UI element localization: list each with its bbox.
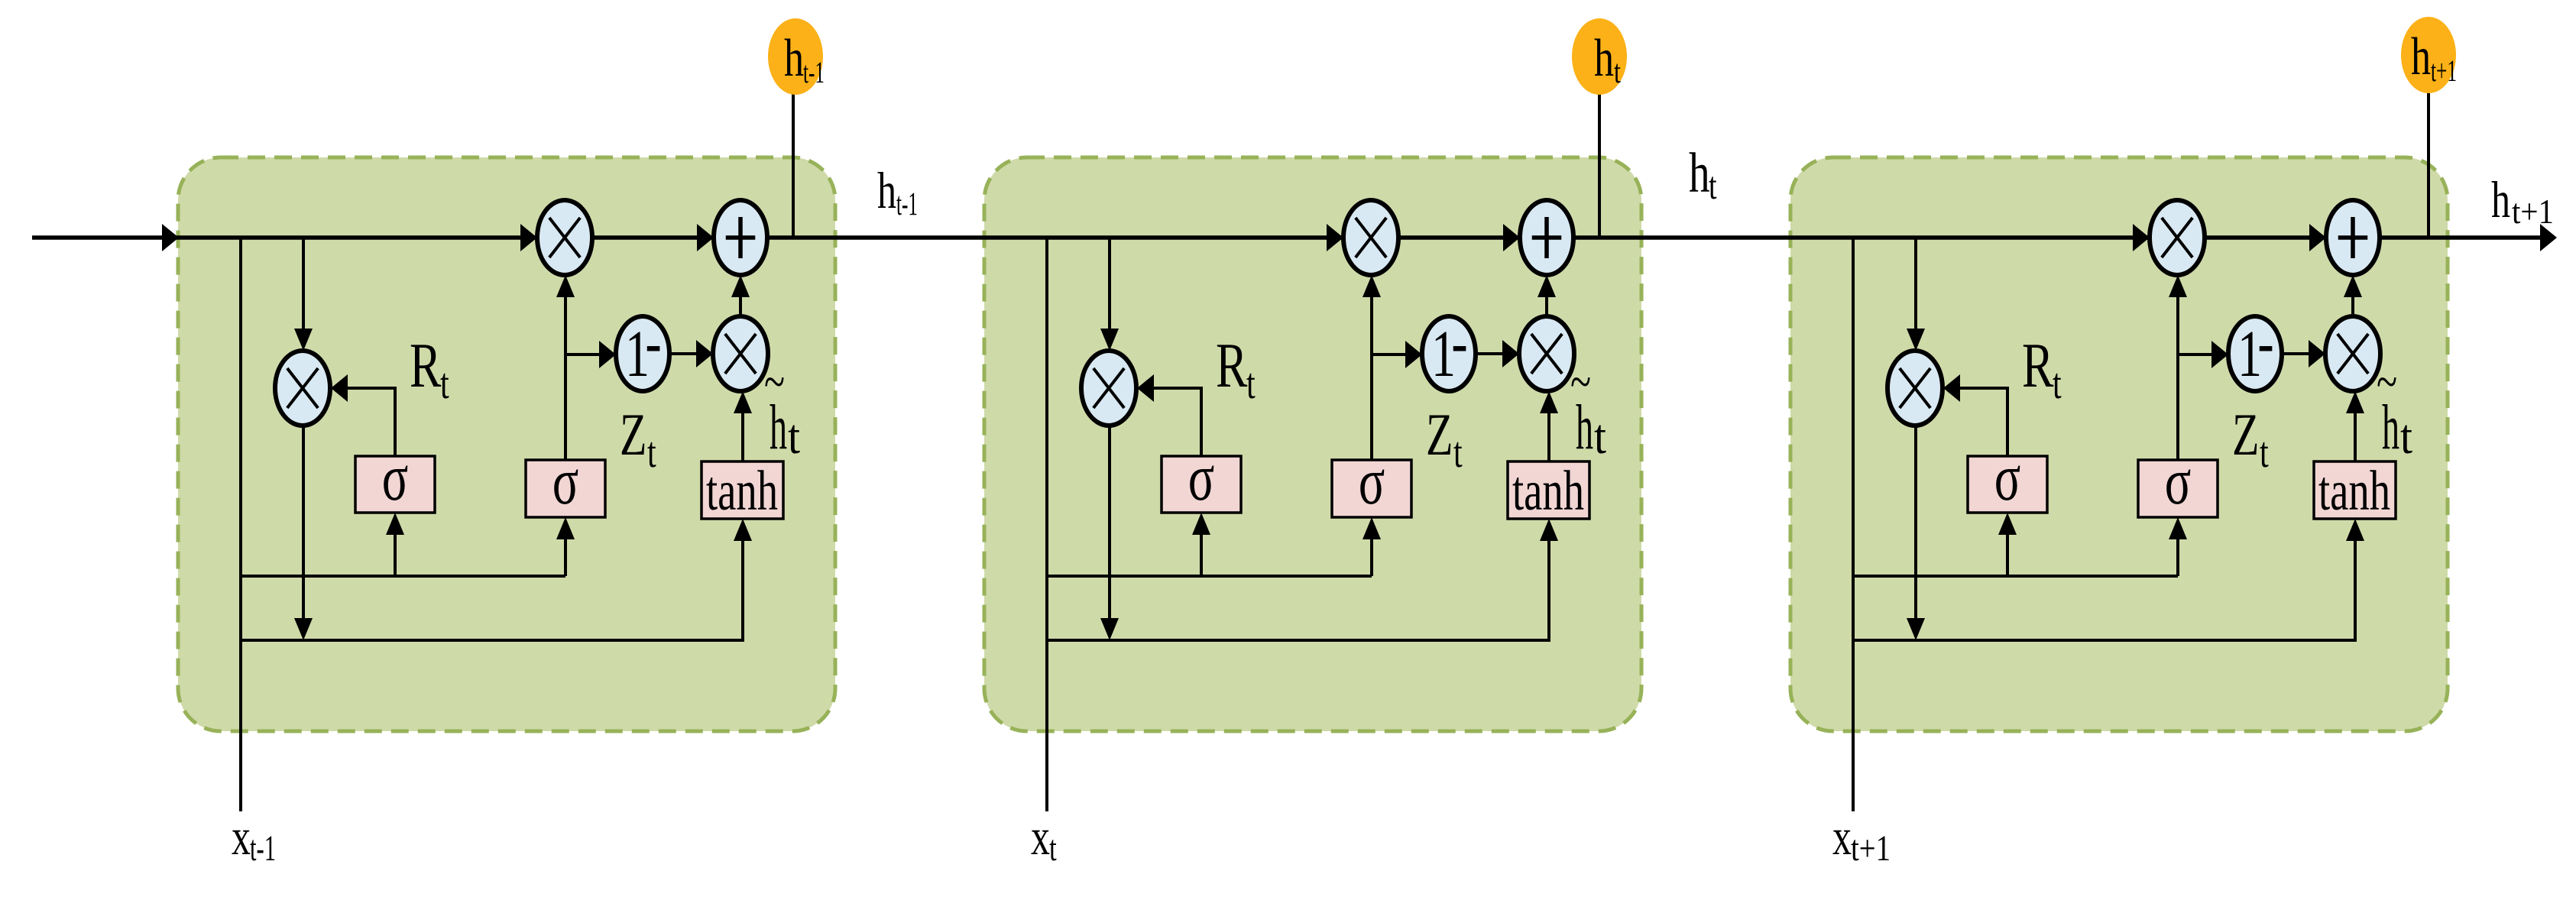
wire: update gate Z_t up to multiply node of cell 2: [1370, 296, 1373, 460]
svg-text:h: h: [1576, 391, 1593, 462]
svg-text:t: t: [2260, 429, 2269, 477]
svg-text:σ: σ: [382, 442, 408, 514]
svg-text:t: t: [1709, 164, 1717, 208]
update multiply node on h bus of cell 1: [537, 200, 592, 275]
update multiply node on h bus of cell 3: [2150, 200, 2205, 275]
svg-text:tanh: tanh: [706, 460, 778, 523]
candidate multiply node (x-in-ellipse) of cell 3: [2325, 316, 2380, 391]
svg-text:h: h: [2411, 28, 2431, 86]
sigma box 1 (reset gate) of cell 3: [1968, 456, 2047, 513]
wire: one-minus output to candidate multiply of cell 3: [2282, 352, 2309, 355]
wire: R_t gate signal from sigma to reset multiply of cell 3: [1959, 388, 2007, 456]
wire: lower feed line into tanh of cell 3: [1853, 539, 2355, 640]
sigma box 1 (reset gate) of cell 2: [1162, 456, 1241, 513]
arrowhead: into update multiply node of cell 2: [1327, 224, 1343, 251]
svg-text:σ: σ: [1188, 442, 1214, 514]
svg-text:h: h: [877, 162, 896, 219]
sigma box 2 (update gate) of cell 1: [526, 460, 605, 517]
wire: tanh output to candidate multiply of cell 1: [741, 411, 744, 461]
svg-text:h: h: [2382, 391, 2399, 462]
wire: input x line of cell 1 (vertical): [239, 238, 242, 811]
wire: input x line of cell 2 (vertical): [1045, 238, 1048, 811]
wire: feed into sigma box 2 of cell 1: [564, 537, 567, 576]
wire: lower feed line into tanh of cell 1: [241, 539, 743, 640]
arrowhead: into add node of cell 1: [697, 224, 714, 251]
svg-text:t: t: [1049, 828, 1057, 868]
wire: x/h feed line to gates (upper horizontal) of cell 1: [241, 575, 565, 578]
wire: Z_t branch to one-minus node of cell 2: [1372, 353, 1405, 356]
svg-text:t: t: [440, 360, 449, 408]
wire: Z_t branch to one-minus node of cell 3: [2178, 353, 2211, 356]
svg-text:t: t: [1453, 429, 1463, 477]
wire: x/h feed line to gates (upper horizontal) of cell 3: [1853, 575, 2178, 578]
svg-text:t: t: [2400, 410, 2412, 465]
arrowhead: into add node of cell 2: [1503, 224, 1520, 251]
candidate multiply node (x-in-ellipse) of cell 2: [1519, 316, 1574, 391]
tanh box of cell 1: [702, 461, 783, 519]
svg-text:tanh: tanh: [2318, 460, 2390, 523]
arrowhead: h(t-2) input entering cell 1: [162, 224, 179, 251]
svg-text:t-1: t-1: [803, 55, 825, 89]
svg-text:Z: Z: [1426, 402, 1453, 468]
arrowhead: final output h(t+1) at far right: [2540, 224, 2557, 251]
svg-text:t: t: [788, 410, 800, 465]
svg-text:t+1: t+1: [1851, 828, 1891, 868]
svg-text:h: h: [2491, 171, 2510, 228]
wire: reset multiply output down to tanh feed line of cell 1: [302, 426, 305, 620]
svg-text:x: x: [1832, 808, 1852, 866]
svg-text:σ: σ: [1994, 442, 2021, 514]
wire: Z_t branch to one-minus node of cell 1: [565, 353, 599, 356]
wire: reset multiply output down to tanh feed line of cell 3: [1914, 426, 1917, 620]
wire: lower feed line into tanh of cell 2: [1047, 539, 1549, 640]
svg-text:t: t: [1614, 53, 1621, 90]
wire: tanh output to candidate multiply of cell 3: [2354, 411, 2357, 461]
add node (+) on h bus of cell 3: [2326, 200, 2380, 275]
svg-text:-: -: [645, 306, 661, 379]
reset-gate multiply node (x-in-ellipse) of cell 3: [1887, 351, 1943, 426]
wire: feed into sigma box 2 of cell 2: [1370, 537, 1373, 576]
one-minus node (1-) of cell 1: [616, 316, 669, 391]
wire: R_t gate signal from sigma to reset multiply of cell 2: [1153, 388, 1201, 456]
svg-text:h: h: [784, 29, 804, 88]
reset-gate multiply node (x-in-ellipse) of cell 2: [1081, 351, 1136, 426]
wire: feed into sigma box 1 of cell 3: [2006, 533, 2009, 575]
svg-text:t-1: t-1: [250, 828, 276, 868]
one-minus node (1-) of cell 3: [2228, 316, 2282, 391]
wire: feed into sigma box 1 of cell 1: [394, 533, 397, 575]
wire: x/h feed line to gates (upper horizontal) of cell 2: [1047, 575, 1372, 578]
wire: hidden state output up to h bubble of cell 3: [2427, 93, 2430, 238]
wire: h branch down to reset multiply of cell 2: [1108, 238, 1111, 330]
svg-text:Z: Z: [2232, 402, 2259, 468]
svg-text:t: t: [647, 429, 656, 477]
arrowhead: into update multiply node of cell 3: [2133, 224, 2150, 251]
svg-text:t: t: [1594, 410, 1606, 465]
svg-text:R: R: [410, 329, 442, 400]
svg-text:h: h: [1594, 29, 1614, 88]
wire: R_t gate signal from sigma to reset multiply of cell 1: [347, 388, 395, 456]
wire: feed into sigma box 2 of cell 3: [2176, 537, 2179, 576]
wire: hidden state output up to h bubble of cell 1: [792, 93, 795, 238]
svg-text:t+1: t+1: [2512, 192, 2554, 231]
update multiply node on h bus of cell 2: [1343, 200, 1398, 275]
wire: candidate multiply up to add node of cell 3: [2351, 296, 2354, 316]
GRU cell 1 boundary (dashed green rounded box): [178, 157, 835, 731]
svg-text:R: R: [2022, 329, 2054, 400]
svg-text:x: x: [232, 808, 251, 866]
wire: tanh output to candidate multiply of cell 2: [1547, 411, 1550, 461]
wire: candidate multiply up to add node of cell 2: [1545, 296, 1548, 316]
svg-text:-: -: [1451, 306, 1467, 379]
sigma box 1 (reset gate) of cell 1: [355, 456, 435, 513]
sigma box 2 (update gate) of cell 3: [2138, 460, 2218, 517]
reset-gate multiply node (x-in-ellipse) of cell 1: [275, 351, 330, 426]
svg-text:tanh: tanh: [1512, 460, 1584, 523]
wire: one-minus output to candidate multiply of cell 1: [669, 352, 696, 355]
output bubble h (orange ellipse) of cell 1: [768, 18, 823, 95]
svg-text:R: R: [1216, 329, 1248, 400]
svg-text:t+1: t+1: [2431, 53, 2457, 88]
tanh box of cell 3: [2314, 461, 2396, 519]
wire: h branch down to reset multiply of cell 1: [302, 238, 305, 330]
svg-text:t-1: t-1: [896, 186, 918, 222]
wire: feed into sigma box 1 of cell 2: [1200, 533, 1203, 575]
add node (+) on h bus of cell 1: [714, 200, 767, 275]
arrowhead: into add node of cell 3: [2309, 224, 2326, 251]
GRU cell 2 boundary (dashed green rounded box): [984, 157, 1641, 731]
wire: update gate Z_t up to multiply node of cell 3: [2176, 296, 2179, 460]
wire: reset multiply output down to tanh feed line of cell 2: [1108, 426, 1111, 620]
output bubble h (orange ellipse) of cell 3: [2401, 17, 2456, 93]
GRU cell 3 boundary (dashed green rounded box): [1790, 157, 2448, 731]
candidate multiply node (x-in-ellipse) of cell 1: [713, 316, 768, 391]
svg-text:x: x: [1031, 808, 1050, 866]
tanh box of cell 2: [1508, 461, 1589, 519]
wire: one-minus output to candidate multiply of cell 2: [1476, 352, 1502, 355]
sigma box 2 (update gate) of cell 2: [1332, 460, 1411, 517]
wire: input x line of cell 3 (vertical): [1852, 238, 1855, 811]
svg-text:Z: Z: [620, 402, 646, 468]
svg-text:h: h: [770, 391, 787, 462]
wire: candidate multiply up to add node of cell 1: [739, 296, 742, 316]
wire: recurrent hidden-state bus h (main horizontal line): [32, 235, 2542, 240]
svg-text:t: t: [1246, 360, 1256, 408]
wire: hidden state output up to h bubble of cell 2: [1598, 93, 1601, 238]
svg-text:-: -: [2257, 306, 2273, 379]
output bubble h (orange ellipse) of cell 2: [1572, 18, 1627, 95]
one-minus node (1-) of cell 2: [1422, 316, 1476, 391]
wire: update gate Z_t up to multiply node of cell 1: [564, 296, 567, 460]
wire: h branch down to reset multiply of cell 3: [1914, 238, 1917, 330]
svg-text:h: h: [1689, 142, 1710, 205]
svg-text:t: t: [2053, 360, 2062, 408]
add node (+) on h bus of cell 2: [1520, 200, 1573, 275]
arrowhead: into update multiply node of cell 1: [520, 224, 537, 251]
